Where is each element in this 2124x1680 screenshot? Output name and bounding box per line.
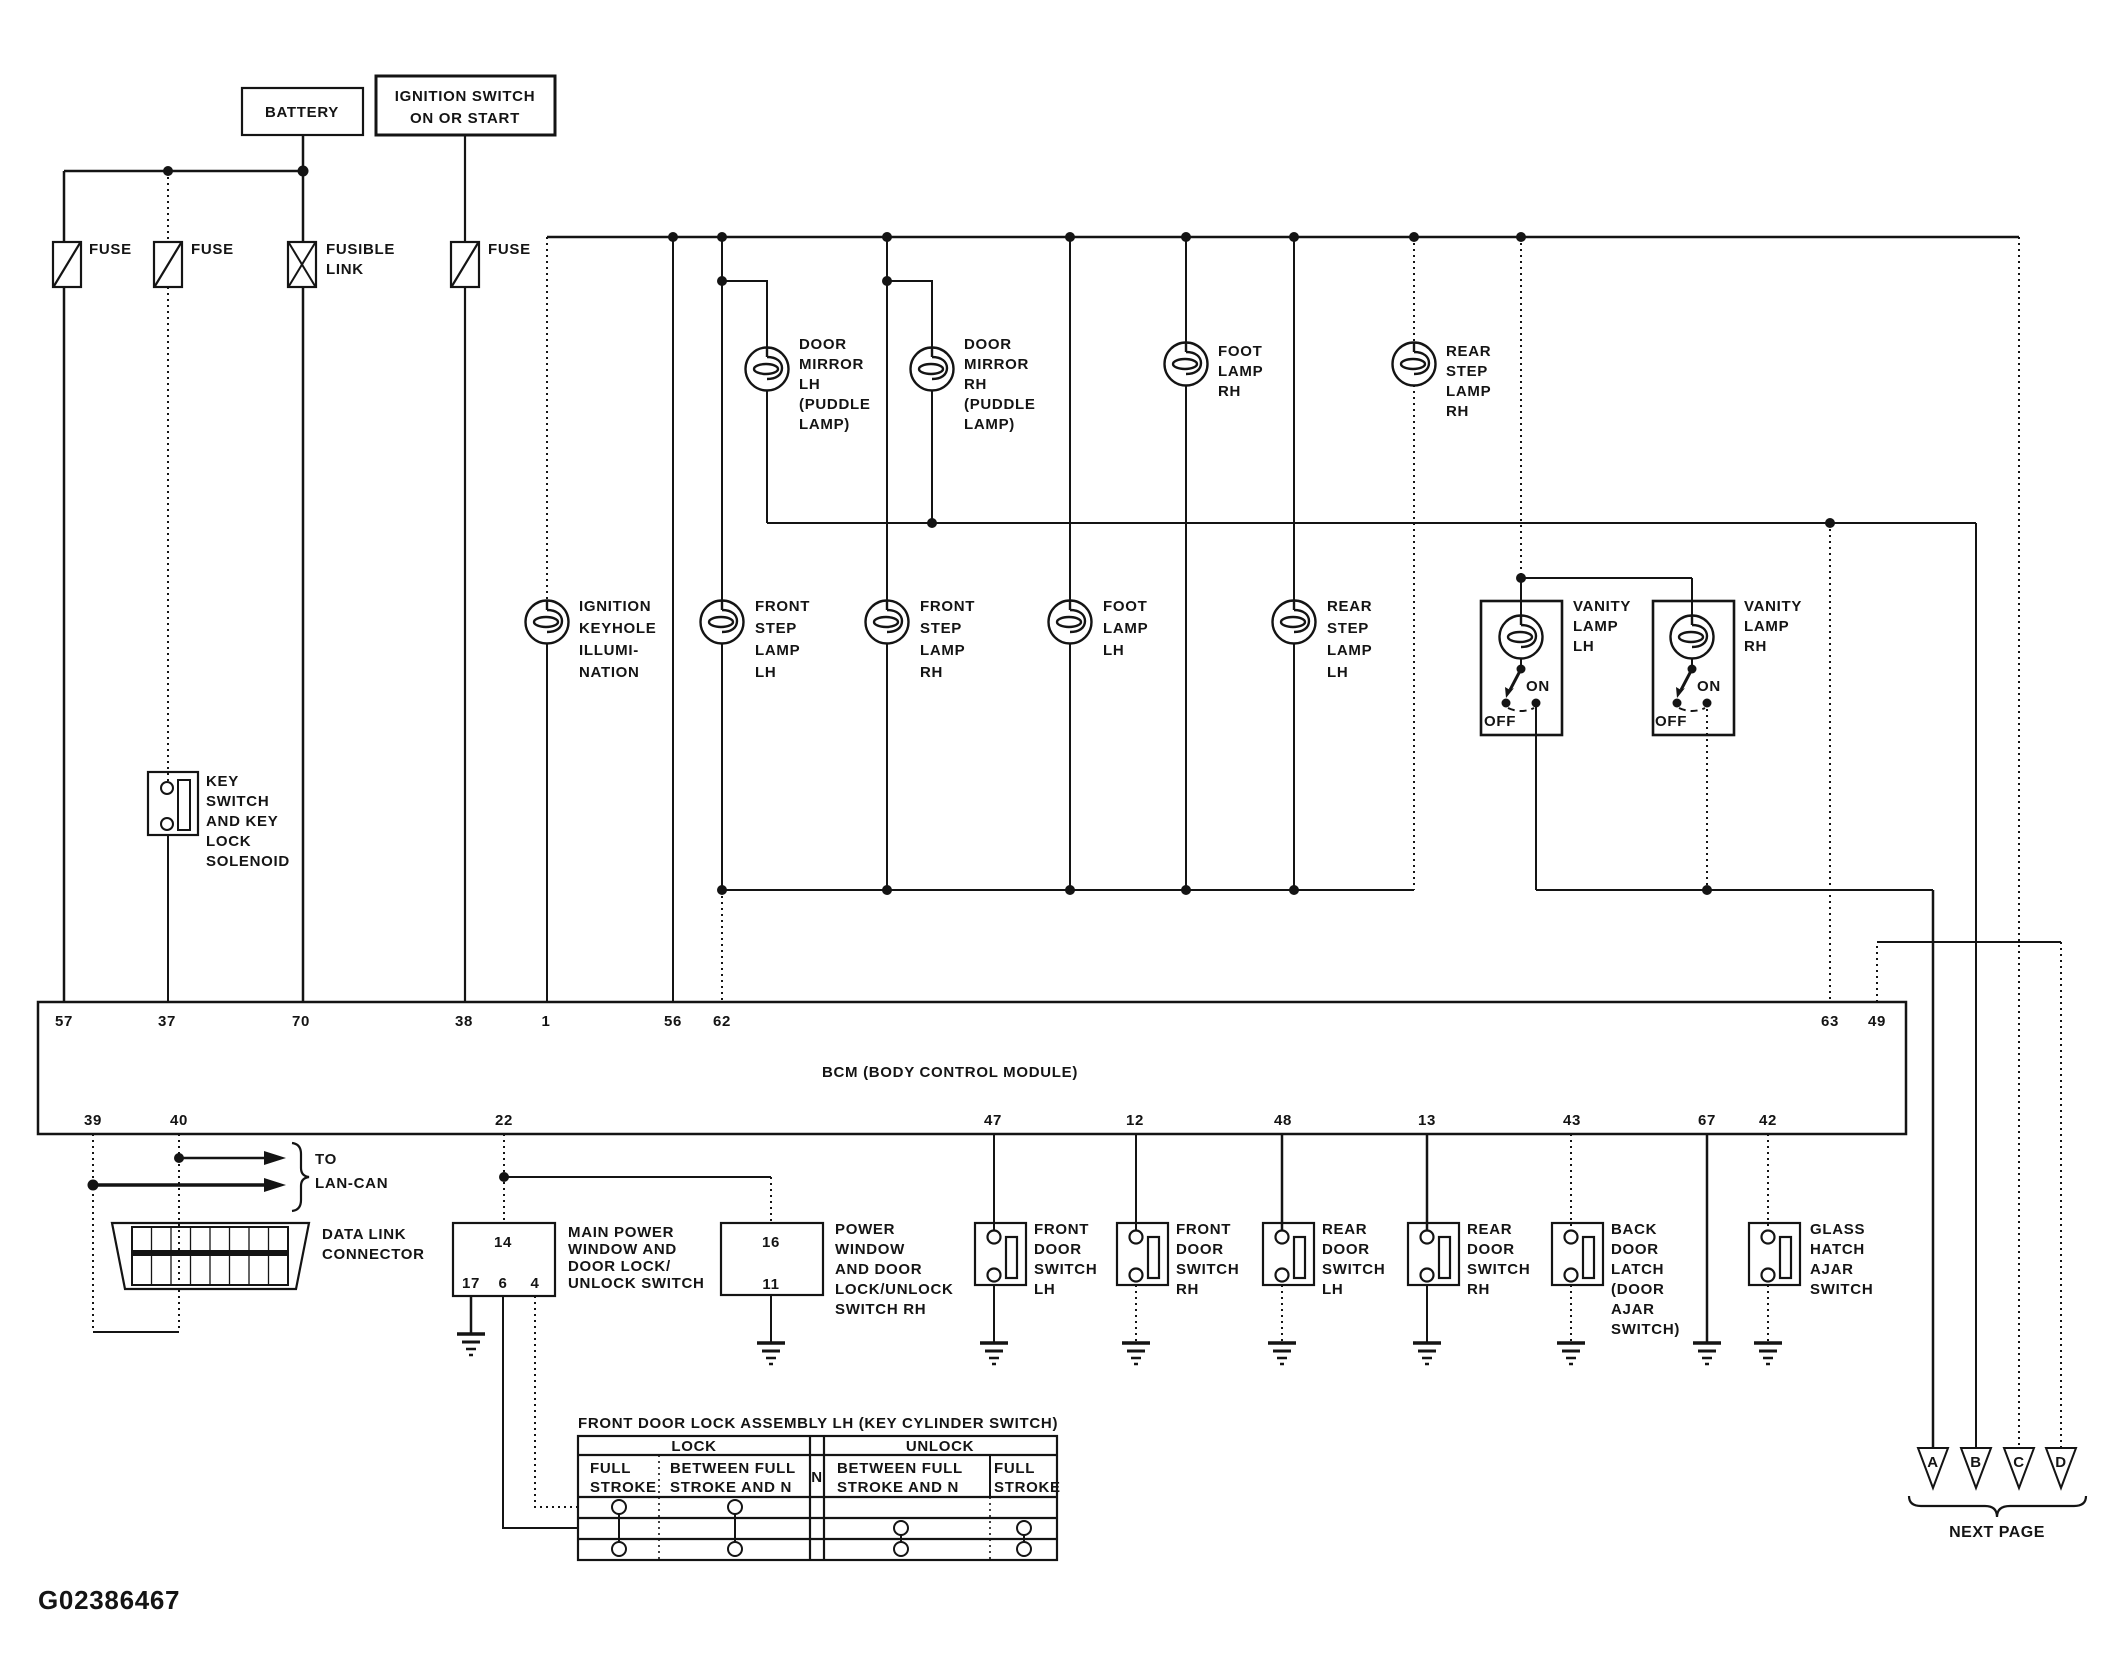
svg-text:16: 16 [762, 1234, 780, 1251]
ignition switch box [376, 76, 555, 135]
svg-text:LH: LH [755, 664, 776, 681]
svg-text:NEXT PAGE: NEXT PAGE [1949, 1524, 2045, 1541]
svg-text:BETWEEN FULL: BETWEEN FULL [837, 1460, 963, 1477]
svg-text:DOOR: DOOR [964, 336, 1012, 353]
wire bus to front step lamp RH [886, 237, 888, 601]
svg-text:(DOOR: (DOOR [1611, 1281, 1665, 1298]
wire bus to BCM pin 56 [672, 237, 674, 1002]
svg-text:BACK: BACK [1611, 1221, 1657, 1238]
svg-text:SWITCH: SWITCH [1176, 1261, 1239, 1278]
junction dot [1825, 518, 1835, 528]
svg-text:FUSE: FUSE [191, 241, 234, 258]
svg-text:1: 1 [541, 1013, 550, 1030]
svg-text:(PUDDLE: (PUDDLE [964, 396, 1036, 413]
svg-text:FRONT DOOR LOCK ASSEMBLY LH (K: FRONT DOOR LOCK ASSEMBLY LH (KEY CYLINDE… [578, 1415, 1058, 1432]
front door switch LH [975, 1221, 1097, 1298]
ground [757, 1343, 785, 1364]
svg-text:SWITCH): SWITCH) [1611, 1321, 1680, 1338]
junction dot [717, 885, 727, 895]
svg-text:FOOT: FOOT [1218, 343, 1262, 360]
svg-text:LH: LH [1322, 1281, 1343, 1298]
wire branch to door mirror LH [722, 281, 767, 348]
svg-text:FULL: FULL [994, 1460, 1035, 1477]
wire BCM pin 22 [503, 1134, 505, 1223]
svg-text:LAMP: LAMP [1744, 618, 1789, 635]
wire mirror LH down [766, 390, 768, 523]
svg-text:STROKE: STROKE [590, 1479, 657, 1496]
junction dot [927, 518, 937, 528]
svg-text:FULL: FULL [590, 1460, 631, 1477]
svg-text:SWITCH: SWITCH [1322, 1261, 1385, 1278]
svg-text:STEP: STEP [755, 620, 797, 637]
wire pin 6 to table [503, 1296, 578, 1528]
wire rear step RH down [1413, 385, 1415, 890]
svg-text:42: 42 [1759, 1112, 1777, 1129]
svg-text:KEYHOLE: KEYHOLE [579, 620, 656, 637]
rear door switch RH [1408, 1221, 1530, 1298]
wire pin 4 to table [535, 1296, 578, 1507]
lamp foot RH [1165, 343, 1264, 401]
lamp feed bus [547, 236, 2019, 239]
vanity lamp RH [1653, 598, 1802, 890]
svg-text:FRONT: FRONT [920, 598, 975, 615]
fuse F4 [451, 241, 531, 287]
data link connector [112, 1223, 425, 1289]
ground [457, 1334, 485, 1355]
junction dot [1181, 232, 1191, 242]
node NEXT PAGE [1909, 1496, 2086, 1541]
ground [1122, 1343, 1150, 1364]
svg-text:BATTERY: BATTERY [265, 104, 339, 121]
wire lamp feed bus to triangle C [2018, 237, 2020, 1448]
wire pin 17 to ground [470, 1296, 473, 1334]
junction dot [668, 232, 678, 242]
wire data link return [93, 1331, 179, 1333]
BCM (body control module) [38, 1002, 1906, 1134]
svg-text:ON: ON [1526, 678, 1550, 695]
svg-text:LAMP: LAMP [1327, 642, 1372, 659]
wire key switch to BCM pin 37 [167, 835, 169, 1002]
ground [1268, 1343, 1296, 1364]
wire to ground [1135, 1285, 1137, 1343]
wire bus to foot lamp LH [1069, 237, 1071, 601]
svg-text:SOLENOID: SOLENOID [206, 853, 290, 870]
svg-text:G02386467: G02386467 [38, 1585, 180, 1615]
junction dot [499, 1172, 509, 1182]
glass hatch ajar switch [1749, 1221, 1873, 1298]
svg-text:REAR: REAR [1327, 598, 1372, 615]
wire vanity bus to triangle A [1932, 890, 1935, 1448]
svg-text:FRONT: FRONT [1176, 1221, 1231, 1238]
svg-text:SWITCH: SWITCH [206, 793, 269, 810]
svg-text:39: 39 [84, 1112, 102, 1129]
wire fusible link to BCM pin 70 [302, 287, 305, 1002]
svg-text:IGNITION SWITCH: IGNITION SWITCH [395, 88, 536, 105]
node TO LAN-CAN [292, 1143, 388, 1211]
wire BCM pin 43 [1570, 1134, 1572, 1231]
svg-text:IGNITION: IGNITION [579, 598, 651, 615]
svg-text:VANITY: VANITY [1573, 598, 1631, 615]
lamp ignition keyhole illumination [526, 598, 657, 681]
svg-text:DOOR: DOOR [1611, 1241, 1659, 1258]
wire puddle net to BCM pin 63 [1829, 523, 1831, 1002]
wire front step LH down [721, 643, 723, 890]
svg-text:LH: LH [799, 376, 820, 393]
svg-text:OFF: OFF [1655, 713, 1687, 730]
wire to ground [1570, 1285, 1572, 1343]
wire battery feed bus [64, 170, 304, 173]
svg-text:ON: ON [1697, 678, 1721, 695]
svg-text:KEY: KEY [206, 773, 239, 790]
svg-text:13: 13 [1418, 1112, 1436, 1129]
svg-text:D: D [2055, 1454, 2067, 1471]
svg-text:B: B [1970, 1454, 1982, 1471]
svg-text:STEP: STEP [1446, 363, 1488, 380]
junction dot [1065, 232, 1075, 242]
svg-text:40: 40 [170, 1112, 188, 1129]
svg-text:BETWEEN FULL: BETWEEN FULL [670, 1460, 796, 1477]
wire foot LH down [1069, 643, 1071, 890]
wire BCM pin 13 [1426, 1134, 1429, 1231]
svg-text:VANITY: VANITY [1744, 598, 1802, 615]
svg-text:LH: LH [1103, 642, 1124, 659]
svg-text:RH: RH [1467, 1281, 1490, 1298]
wire to fusible link [302, 171, 305, 242]
node lamp return bus [722, 889, 1414, 891]
svg-text:AND DOOR: AND DOOR [835, 1261, 922, 1278]
svg-text:AND KEY: AND KEY [206, 813, 278, 830]
front door switch RH [1117, 1221, 1239, 1298]
wire to ground [1281, 1285, 1283, 1343]
svg-text:LOCK: LOCK [671, 1438, 716, 1455]
wire fuse4 to BCM pin 38 [464, 287, 466, 1002]
svg-text:MIRROR: MIRROR [799, 356, 864, 373]
svg-text:DOOR: DOOR [1322, 1241, 1370, 1258]
svg-text:48: 48 [1274, 1112, 1292, 1129]
svg-text:LAMP: LAMP [1103, 620, 1148, 637]
svg-text:REAR: REAR [1446, 343, 1491, 360]
svg-text:6: 6 [498, 1275, 507, 1292]
svg-text:14: 14 [494, 1234, 512, 1251]
wire BCM pin 12 [1135, 1134, 1137, 1231]
svg-text:38: 38 [455, 1013, 473, 1030]
svg-text:RH: RH [1218, 383, 1241, 400]
power window and door lock/unlock switch RH [721, 1221, 954, 1318]
wire to ground [993, 1285, 995, 1343]
svg-text:ILLUMI-: ILLUMI- [579, 642, 639, 659]
svg-text:STEP: STEP [1327, 620, 1369, 637]
wire bus to front step lamp LH [721, 237, 723, 601]
svg-text:REAR: REAR [1322, 1221, 1367, 1238]
svg-text:NATION: NATION [579, 664, 640, 681]
svg-text:DOOR: DOOR [799, 336, 847, 353]
svg-text:(PUDDLE: (PUDDLE [799, 396, 871, 413]
svg-text:LAMP: LAMP [920, 642, 965, 659]
wire BCM pin 49 to triangle D [1876, 942, 1878, 1002]
svg-text:ON OR START: ON OR START [410, 110, 520, 127]
junction dot [882, 276, 892, 286]
svg-text:RH: RH [964, 376, 987, 393]
battery B1 [242, 88, 363, 135]
fuse F1 [53, 241, 132, 287]
wire puddle net to triangle B [1975, 523, 1977, 1448]
ground [980, 1343, 1008, 1364]
wire battery stem [302, 135, 305, 171]
svg-text:N: N [811, 1469, 823, 1486]
svg-text:LAMP): LAMP) [964, 416, 1015, 433]
svg-text:SWITCH: SWITCH [1034, 1261, 1097, 1278]
wire BCM pin 48 [1281, 1134, 1284, 1231]
svg-text:UNLOCK: UNLOCK [906, 1438, 974, 1455]
ground [1693, 1343, 1721, 1364]
svg-text:LH: LH [1573, 638, 1594, 655]
junction dot [882, 232, 892, 242]
svg-text:GLASS: GLASS [1810, 1221, 1865, 1238]
svg-text:HATCH: HATCH [1810, 1241, 1865, 1258]
wire bus to vanity lamps [1520, 237, 1522, 578]
svg-text:AJAR: AJAR [1611, 1301, 1655, 1318]
svg-text:DOOR: DOOR [1034, 1241, 1082, 1258]
svg-text:FUSIBLE: FUSIBLE [326, 241, 395, 258]
lamp front step RH [866, 598, 976, 681]
lamp rear step RH [1393, 343, 1492, 421]
svg-text:4: 4 [530, 1275, 539, 1292]
triangle C [2004, 1448, 2034, 1488]
wire mirror RH down [931, 390, 933, 523]
svg-text:11: 11 [762, 1276, 779, 1293]
wire fuse1 to BCM pin 57 [63, 287, 66, 1002]
svg-text:SWITCH: SWITCH [1467, 1261, 1530, 1278]
svg-text:63: 63 [1821, 1013, 1839, 1030]
junction dot [88, 1180, 99, 1191]
svg-text:43: 43 [1563, 1112, 1581, 1129]
svg-text:FUSE: FUSE [89, 241, 132, 258]
junction dot [717, 232, 727, 242]
wire ignition to fuse 4 [464, 135, 466, 242]
svg-text:LOCK/UNLOCK: LOCK/UNLOCK [835, 1281, 954, 1298]
svg-text:RH: RH [1446, 403, 1469, 420]
svg-text:67: 67 [1698, 1112, 1716, 1129]
svg-text:RH: RH [1176, 1281, 1199, 1298]
svg-text:37: 37 [158, 1013, 176, 1030]
svg-text:57: 57 [55, 1013, 73, 1030]
junction dot [1702, 885, 1712, 895]
svg-text:FOOT: FOOT [1103, 598, 1147, 615]
svg-text:TO: TO [315, 1151, 337, 1168]
rear door switch LH [1263, 1221, 1385, 1298]
junction dot [1289, 885, 1299, 895]
node vanity return bus [1536, 889, 1933, 891]
svg-text:DOOR: DOOR [1467, 1241, 1515, 1258]
junction dot [1289, 232, 1299, 242]
svg-text:SWITCH RH: SWITCH RH [835, 1301, 926, 1318]
lamp rear step LH [1273, 598, 1373, 681]
svg-text:70: 70 [292, 1013, 310, 1030]
svg-text:OFF: OFF [1484, 713, 1516, 730]
junction dot [717, 276, 727, 286]
wire BCM pin 42 [1767, 1134, 1769, 1231]
svg-text:49: 49 [1868, 1013, 1886, 1030]
junction dot [882, 885, 892, 895]
svg-text:RH: RH [920, 664, 943, 681]
ground [1754, 1343, 1782, 1364]
svg-text:A: A [1927, 1454, 1939, 1471]
svg-text:LAN-CAN: LAN-CAN [315, 1175, 388, 1192]
svg-text:LAMP): LAMP) [799, 416, 850, 433]
svg-text:MIRROR: MIRROR [964, 356, 1029, 373]
wire branch to door mirror RH [887, 281, 932, 348]
svg-text:DOOR: DOOR [1176, 1241, 1224, 1258]
wire rear step LH down [1293, 643, 1295, 890]
ground [1557, 1343, 1585, 1364]
svg-text:22: 22 [495, 1112, 513, 1129]
junction dot [298, 166, 309, 177]
front door lock assembly table [578, 1415, 1061, 1560]
junction dot [1409, 232, 1419, 242]
junction dot [174, 1153, 184, 1163]
wire to fuse 2 [167, 171, 169, 242]
lamp door mirror RH [911, 336, 1036, 433]
svg-text:FUSE: FUSE [488, 241, 531, 258]
wire pin 11 to ground [770, 1295, 772, 1343]
junction dot [1065, 885, 1075, 895]
svg-text:WINDOW AND: WINDOW AND [568, 1241, 677, 1258]
svg-text:RH: RH [1744, 638, 1767, 655]
wire branch to RH switch [504, 1176, 771, 1178]
junction dot [163, 166, 173, 176]
svg-text:LOCK: LOCK [206, 833, 251, 850]
svg-text:62: 62 [713, 1013, 731, 1030]
svg-text:SWITCH: SWITCH [1810, 1281, 1873, 1298]
wire to ground [1767, 1285, 1769, 1343]
svg-text:AJAR: AJAR [1810, 1261, 1854, 1278]
svg-text:LH: LH [1034, 1281, 1055, 1298]
wire front step RH down [886, 643, 888, 890]
ground [1413, 1343, 1441, 1364]
wire fuse2 to key switch [167, 287, 169, 783]
svg-text:STEP: STEP [920, 620, 962, 637]
triangle D [2046, 1448, 2076, 1488]
wire to ground [1426, 1285, 1428, 1343]
svg-text:POWER: POWER [835, 1221, 895, 1238]
svg-text:STROKE: STROKE [994, 1479, 1061, 1496]
svg-text:DATA LINK: DATA LINK [322, 1226, 406, 1243]
wire to fuse 1 [63, 171, 66, 242]
svg-text:C: C [2013, 1454, 2025, 1471]
svg-text:REAR: REAR [1467, 1221, 1512, 1238]
junction dot [1181, 885, 1191, 895]
svg-text:STROKE AND N: STROKE AND N [837, 1479, 959, 1496]
triangle B [1961, 1448, 1991, 1488]
svg-text:LAMP: LAMP [755, 642, 800, 659]
back door latch (door ajar switch) [1552, 1221, 1680, 1338]
junction dot [1516, 232, 1526, 242]
svg-text:LATCH: LATCH [1611, 1261, 1664, 1278]
svg-text:STROKE AND N: STROKE AND N [670, 1479, 792, 1496]
lamp front step LH [701, 598, 811, 681]
wire BCM pin 40 [178, 1134, 180, 1332]
svg-text:CONNECTOR: CONNECTOR [322, 1246, 425, 1263]
svg-text:FRONT: FRONT [1034, 1221, 1089, 1238]
wire lamp bus to BCM pin 62 [721, 890, 723, 1002]
wire bus to foot lamp RH [1185, 237, 1187, 343]
wire BCM pin 47 [993, 1134, 995, 1231]
svg-text:17: 17 [462, 1275, 480, 1292]
wire bus to rear step lamp RH [1413, 237, 1415, 343]
svg-text:LINK: LINK [326, 261, 364, 278]
svg-text:LAMP: LAMP [1218, 363, 1263, 380]
svg-text:LAMP: LAMP [1573, 618, 1618, 635]
lamp door mirror LH [746, 336, 871, 433]
svg-text:BCM (BODY CONTROL MODULE): BCM (BODY CONTROL MODULE) [822, 1064, 1078, 1081]
wire bus to rear step lamp LH [1293, 237, 1295, 601]
svg-text:47: 47 [984, 1112, 1002, 1129]
wire BCM pin 39 [92, 1134, 94, 1332]
svg-text:LAMP: LAMP [1446, 383, 1491, 400]
wire arrow to LAN-CAN 1 [179, 1151, 286, 1165]
triangle A [1918, 1448, 1948, 1488]
svg-text:FRONT: FRONT [755, 598, 810, 615]
svg-text:56: 56 [664, 1013, 682, 1030]
svg-text:DOOR LOCK/: DOOR LOCK/ [568, 1258, 671, 1275]
svg-text:UNLOCK SWITCH: UNLOCK SWITCH [568, 1275, 705, 1292]
svg-text:MAIN POWER: MAIN POWER [568, 1224, 674, 1241]
vanity lamp LH [1481, 573, 1692, 890]
fuse F2 [154, 241, 234, 287]
wire bus to ignition keyhole lamp [546, 237, 548, 601]
wire keyhole lamp to BCM pin 1 [546, 643, 548, 1002]
svg-text:WINDOW: WINDOW [835, 1241, 905, 1258]
svg-text:12: 12 [1126, 1112, 1144, 1129]
key switch and key lock solenoid [148, 772, 290, 870]
wire BCM pin 67 to ground [1706, 1134, 1709, 1343]
wire arrow to LAN-CAN 2 [93, 1178, 286, 1192]
node puddle lamp net [767, 522, 1976, 524]
wire foot RH down [1185, 385, 1187, 890]
fusible link [288, 241, 395, 287]
lamp foot LH [1049, 598, 1149, 659]
svg-text:LH: LH [1327, 664, 1348, 681]
main power window and door lock/unlock switch [453, 1223, 705, 1296]
